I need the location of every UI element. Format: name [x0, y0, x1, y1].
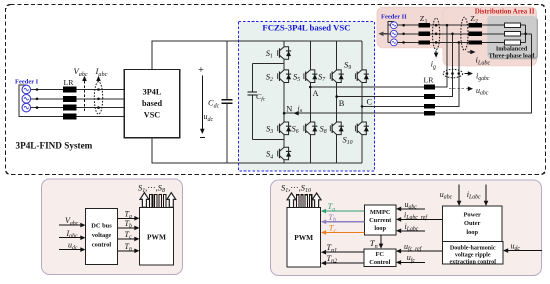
svg-text:based: based — [142, 99, 162, 108]
transistor S9 — [344, 60, 369, 83]
load resistor b — [504, 31, 520, 36]
svg-text:voltage ripple: voltage ripple — [455, 252, 491, 258]
transistor S4 — [266, 147, 291, 160]
svg-text:MMPC: MMPC — [370, 209, 391, 216]
signal iLabc_ref — [396, 210, 443, 221]
udc measurement arrow with + and - — [198, 65, 214, 138]
load resistor a — [504, 23, 520, 28]
input uabc into power outer loop — [440, 185, 462, 207]
signal ufc — [396, 253, 425, 264]
wire node A to LR and riser to feeder II phase a — [310, 25, 447, 87]
inductor LR b — [63, 96, 77, 102]
svg-text:C: C — [367, 98, 373, 107]
leg 4 column wire (S9/S10) — [361, 41, 363, 163]
AC source c (Feeder I) — [22, 103, 31, 112]
gate pulse waveform glyph (right panel) — [297, 195, 312, 208]
signal Tb (left panel) — [118, 219, 140, 230]
wire feeder II phase b — [398, 33, 469, 35]
gate signal block arrow left (right panel) — [287, 193, 296, 208]
MMPC current loop box — [365, 205, 397, 235]
svg-text:Current: Current — [369, 217, 392, 224]
transistor S8 — [320, 122, 344, 135]
node C junction dot — [361, 105, 364, 108]
signal Tn2 — [321, 254, 364, 265]
signal iLabc into MMPC — [396, 222, 425, 233]
load resistor c — [504, 40, 520, 45]
junction dots at grid risers — [446, 24, 449, 27]
svg-text:Feeder I: Feeder I — [15, 79, 39, 86]
transistor S3 — [266, 122, 291, 135]
svg-text:PWM: PWM — [294, 233, 313, 242]
feeder II outgoing arrow — [378, 32, 388, 37]
svg-text:DC bus: DC bus — [91, 223, 112, 230]
signal Tn (left panel) — [118, 242, 140, 253]
input udc — [59, 241, 86, 252]
iLabc measurement ellipse — [461, 17, 491, 66]
svg-text:loop: loop — [466, 229, 478, 236]
PWM box (left panel) — [140, 208, 174, 266]
signal uabc into MMPC — [396, 200, 425, 211]
gate signal block arrow right (right panel) — [312, 193, 321, 208]
svg-text:PWM: PWM — [147, 233, 166, 242]
transistor S10 — [343, 122, 369, 146]
node A junction dot — [309, 86, 312, 89]
AC source c (Feeder II) — [390, 39, 397, 46]
svg-text:B: B — [339, 99, 345, 108]
signal Tb purple — [321, 212, 365, 224]
signal Tn vertical — [370, 235, 384, 250]
svg-text:LR: LR — [64, 78, 75, 87]
inductor LR n — [63, 113, 77, 119]
feeder II source bus wire — [388, 22, 394, 43]
svg-text:Three-phase load: Three-phase load — [489, 52, 535, 59]
leg 1 column wire segments — [283, 41, 285, 163]
svg-text:voltage: voltage — [92, 232, 112, 239]
svg-text:A: A — [313, 89, 319, 98]
inductor LR B — [424, 94, 435, 99]
transistor S5 — [293, 70, 317, 83]
inductor LR N — [424, 111, 435, 116]
leg 3 column wire (S7/S8) — [336, 41, 338, 163]
3P4L based VSC box — [124, 70, 179, 138]
inductor LR a — [63, 87, 77, 93]
Vabc measurement dashed arrow — [74, 66, 88, 111]
svg-text:Double-harmonic: Double-harmonic — [450, 245, 496, 251]
Imbalanced three-phase load box — [487, 16, 536, 58]
input Vabc — [59, 216, 86, 227]
AC source b (Feeder I) — [22, 95, 31, 104]
input Iabc — [59, 229, 86, 240]
Power outer loop box — [443, 206, 503, 242]
transistor S7 — [318, 70, 344, 83]
capacitor Cfc branch — [248, 64, 284, 140]
input udc into double-harmonic box — [503, 241, 542, 253]
Distribution Area II pink panel (upper part) — [377, 7, 537, 48]
node N junction dot — [283, 112, 286, 115]
gate signal block arrow left — [140, 193, 149, 208]
svg-text:VSC: VSC — [144, 111, 160, 120]
Distribution Area II pink panel (right lower extension) — [443, 7, 537, 66]
FC control box — [364, 249, 396, 266]
bottom-right control pink panel — [271, 180, 542, 276]
impedance Z2 b — [469, 32, 483, 36]
transistor S1 — [266, 47, 291, 60]
svg-text:Control: Control — [369, 259, 390, 266]
impedance Z1 a — [418, 23, 430, 27]
input iLabc into power outer loop — [467, 185, 489, 207]
current in arrow and label — [294, 104, 303, 116]
svg-text:loop: loop — [374, 225, 386, 232]
svg-text:Power: Power — [464, 211, 482, 218]
wire feeder II phase c — [398, 41, 469, 43]
wire feeder II phase a — [398, 24, 469, 26]
junction dot phase b — [36, 98, 39, 101]
wire node B to LR and riser to feeder II phase b — [337, 34, 453, 97]
junction dot phase c — [36, 106, 39, 109]
wire node N line to load neutral — [284, 34, 531, 113]
signal Tc orange — [321, 223, 365, 235]
junction dots feeder II at sources — [402, 24, 405, 27]
svg-text:Outer: Outer — [464, 220, 480, 227]
Imbalanced three-phase load box shadow — [489, 17, 538, 59]
wire DC+ bus — [152, 41, 362, 70]
Double-harmonic extraction box — [443, 242, 504, 266]
wire phase c (left) — [31, 107, 125, 109]
svg-text:extraction control: extraction control — [449, 259, 496, 265]
signal Ta (left panel) — [118, 209, 140, 220]
svg-text:FC: FC — [376, 251, 385, 258]
AC source b (Feeder II) — [390, 30, 397, 37]
3P4L-FIND system dashed boundary — [6, 5, 546, 175]
capacitor Cdc — [208, 41, 232, 163]
DC bus voltage control box — [86, 208, 118, 264]
AC source a (Feeder I) — [22, 85, 31, 94]
svg-text:N: N — [286, 105, 292, 114]
AC source a (Feeder II) — [390, 22, 397, 29]
wire DC- bus — [152, 138, 362, 163]
svg-text:FCZS-3P4L based VSC: FCZS-3P4L based VSC — [262, 22, 350, 32]
gate signal block arrow right — [167, 193, 176, 208]
svg-text:3P4L: 3P4L — [143, 88, 162, 97]
impedance Z1 b — [418, 32, 430, 36]
wire phase a (left) — [31, 89, 125, 91]
signal Tc (left panel) — [118, 230, 140, 241]
inductor LR c — [63, 105, 77, 111]
PWM box (right panel) — [287, 208, 321, 268]
node B junction dot — [335, 95, 338, 98]
inductor LR A — [424, 85, 435, 90]
svg-text:+: + — [198, 65, 204, 76]
Iabc measurement ellipse — [94, 66, 107, 114]
impedance Z2 c — [469, 40, 483, 44]
uabc measurement dashed arrow — [449, 86, 489, 97]
svg-text:Feeder II: Feeder II — [381, 14, 407, 21]
impedance Z2 a — [469, 23, 483, 27]
signal ufc_ref — [396, 242, 443, 253]
ig measurement ellipse — [431, 18, 440, 70]
load connection wires — [482, 25, 531, 42]
junction dot phase a — [36, 88, 39, 91]
inductor LR C — [424, 104, 435, 109]
wire neutral loop (left) — [19, 85, 124, 116]
wire node C to LR and riser to feeder II phase c — [362, 42, 459, 106]
transistor S2 — [266, 70, 291, 83]
svg-text:3P4L-FIND System: 3P4L-FIND System — [16, 141, 93, 151]
FCZS box dashed blue border — [239, 22, 375, 171]
impedance Z1 c — [418, 40, 430, 44]
leg 2 column wire (S5/S6) — [309, 41, 311, 163]
load star junction dot — [524, 33, 527, 36]
wire phase b (left) — [31, 98, 125, 100]
svg-text:LR: LR — [424, 75, 435, 84]
bottom-left control pink panel — [42, 179, 183, 275]
igabc measurement ellipse — [443, 69, 490, 82]
transistor S6 — [292, 122, 318, 135]
signal Tn1 — [321, 243, 364, 254]
svg-text:control: control — [92, 242, 112, 249]
signal Ta green — [321, 201, 365, 213]
FCZS-3P4L based VSC box fill — [239, 22, 375, 171]
gate pulse waveform glyph — [150, 194, 166, 207]
svg-text:Distribution Area II: Distribution Area II — [475, 8, 535, 16]
